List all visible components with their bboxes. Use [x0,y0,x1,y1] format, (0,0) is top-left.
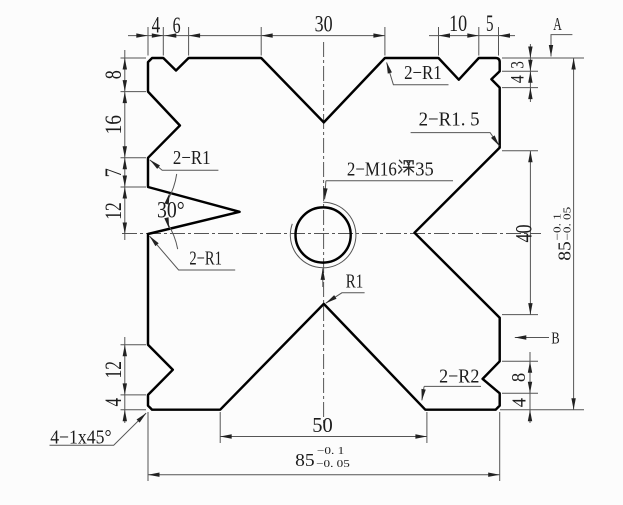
svg-text:85: 85 [295,450,315,470]
svg-text:−0. 1: −0. 1 [317,446,344,457]
svg-text:4: 4 [152,13,161,38]
svg-text:B: B [551,328,559,347]
svg-text:30: 30 [315,12,333,37]
svg-text:40: 40 [512,225,537,243]
svg-text:4: 4 [508,398,530,407]
svg-text:30°: 30° [157,198,185,223]
svg-text:4: 4 [508,75,529,83]
svg-text:85: 85 [554,241,574,261]
svg-text:4: 4 [101,398,126,407]
svg-text:35: 35 [415,160,434,181]
svg-text:7: 7 [101,168,126,177]
svg-text:5: 5 [486,11,494,36]
svg-text:−0. 05: −0. 05 [316,459,350,470]
svg-text:R1: R1 [346,271,363,293]
svg-text:12: 12 [101,361,126,379]
svg-text:2−R2: 2−R2 [439,366,479,388]
svg-text:4−1x45°: 4−1x45° [50,427,111,449]
svg-text:2−R1: 2−R1 [404,62,442,84]
svg-text:50: 50 [312,413,333,437]
svg-text:10: 10 [449,11,467,36]
svg-text:16: 16 [101,115,126,135]
svg-text:12: 12 [101,202,126,220]
svg-text:2−R1: 2−R1 [173,147,211,169]
svg-text:6: 6 [173,13,181,38]
svg-text:2−R1: 2−R1 [189,248,222,270]
svg-text:2−M16: 2−M16 [347,160,397,181]
svg-text:3: 3 [507,61,528,69]
svg-text:8: 8 [508,373,530,382]
svg-text:A: A [553,14,562,34]
svg-text:8: 8 [101,70,126,79]
svg-text:−0. 05: −0. 05 [562,207,573,241]
svg-text:2−R1. 5: 2−R1. 5 [419,109,480,131]
